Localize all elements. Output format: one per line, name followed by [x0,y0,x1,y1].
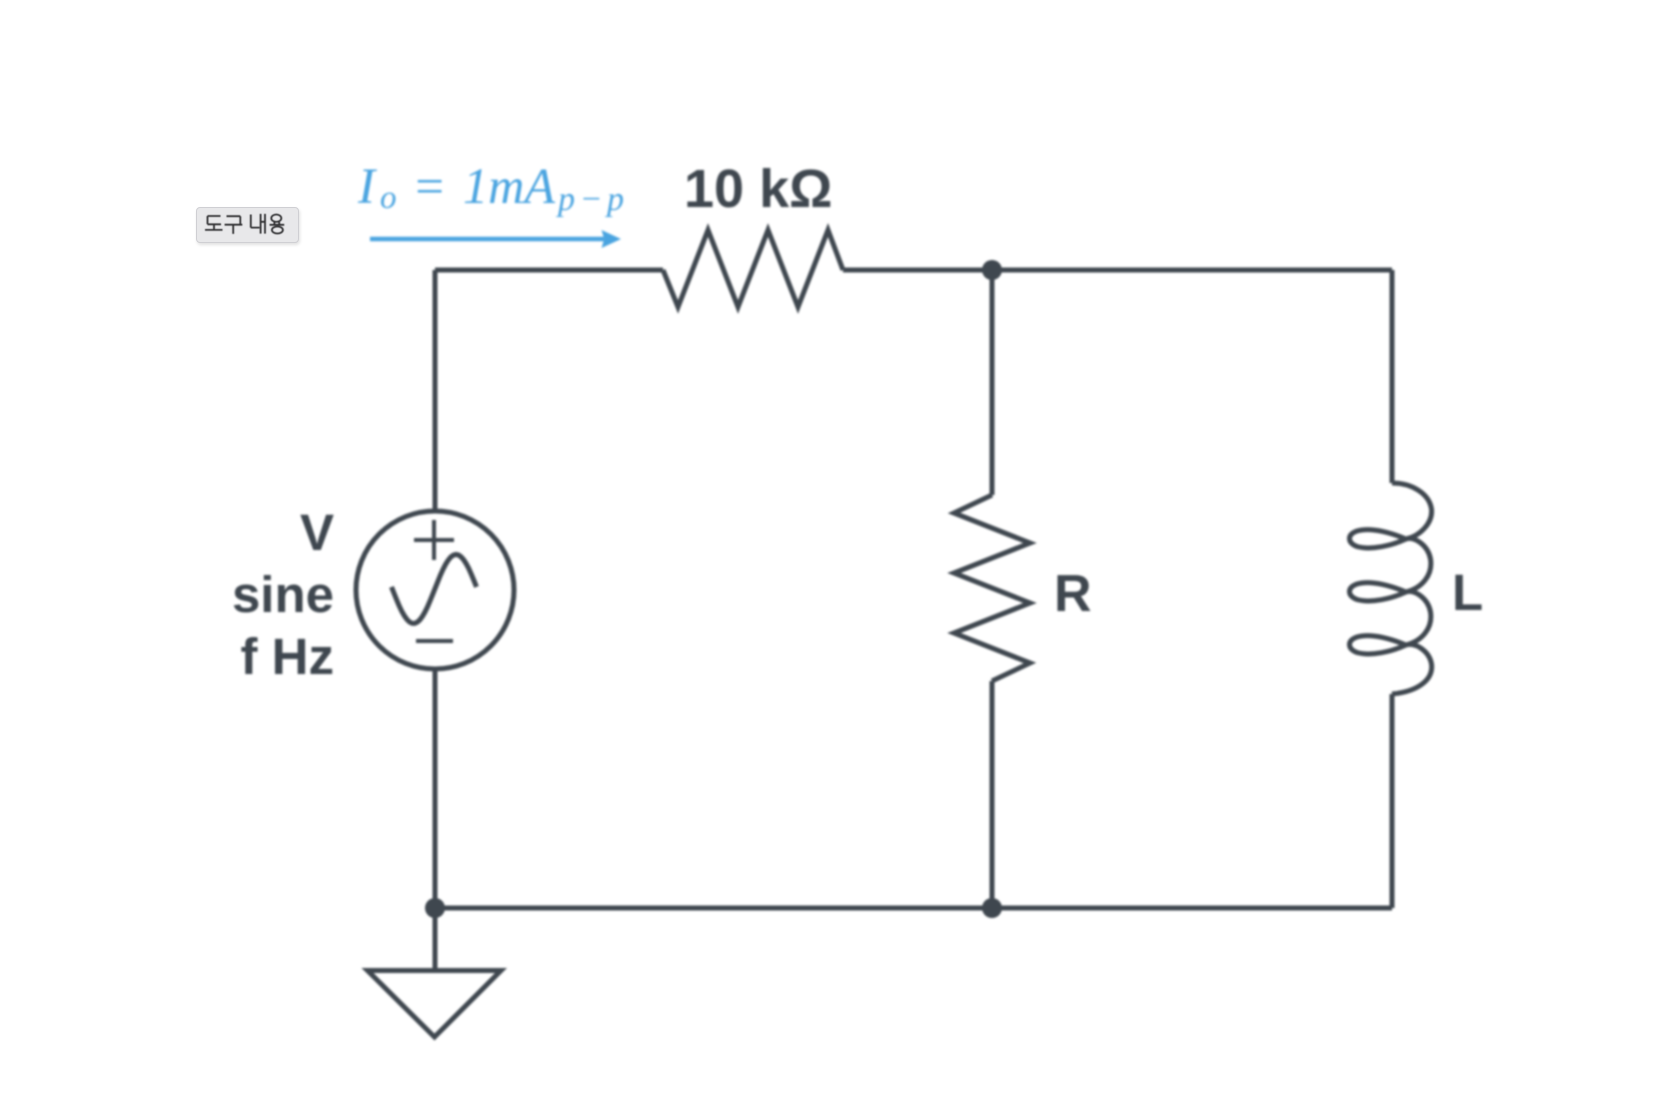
wire: top horizontal from left corner to resistor R1 left lead [435,268,663,273]
svg-text:=: = [412,159,446,215]
tooltip box: 도구 내용 [196,207,299,243]
svg-text:L: L [1452,564,1483,621]
node dot: bottom junction at R branch [982,898,1002,918]
voltage source V1 circle [356,511,514,669]
inductor L coil [1350,483,1432,694]
wire: R bottom lead down to bottom wire [990,681,995,908]
svg-text:sine: sine [232,566,334,623]
node dot: bottom-left junction at ground [425,898,445,918]
glyph 용 [271,215,281,222]
svg-text:10 kΩ: 10 kΩ [684,159,832,219]
voltage source minus sign [416,639,453,643]
wire: bottom horizontal [435,906,1392,911]
voltage source sine wave [392,555,477,624]
glyph 도 [205,216,223,230]
svg-text:f Hz: f Hz [241,628,334,685]
wire: R branch from top junction down to resistor R top [990,270,995,495]
current arrow Io (blue) [370,237,604,242]
tooltip text glyphs (Hangul drawn as strokes) [196,205,316,250]
svg-text:o: o [380,180,397,216]
wire: right branch vertical from top-right corner to inductor top [1390,270,1395,483]
node dot: top junction [982,260,1002,280]
ground symbol triangle [368,971,502,1038]
wire: inductor bottom lead down to bottom-right corner [1390,694,1395,908]
svg-text:R: R [1054,565,1092,623]
voltage source plus sign [414,520,454,560]
svg-text:1mA: 1mA [463,159,556,215]
svg-text:V: V [300,504,334,561]
wire: source bottom lead to bottom-left junction and ground stub [433,669,438,971]
wire: top horizontal from resistor to top-right corner [843,268,1392,273]
glyph 내 [251,214,265,234]
resistor R1 10k horizontal zigzag [663,230,843,307]
resistor R vertical zigzag [954,495,1030,681]
svg-text:p−p: p−p [556,181,624,218]
glyph 구 [225,216,243,234]
wire: left branch vertical from top-left corner to source top [433,270,438,511]
svg-text:I: I [357,159,377,215]
